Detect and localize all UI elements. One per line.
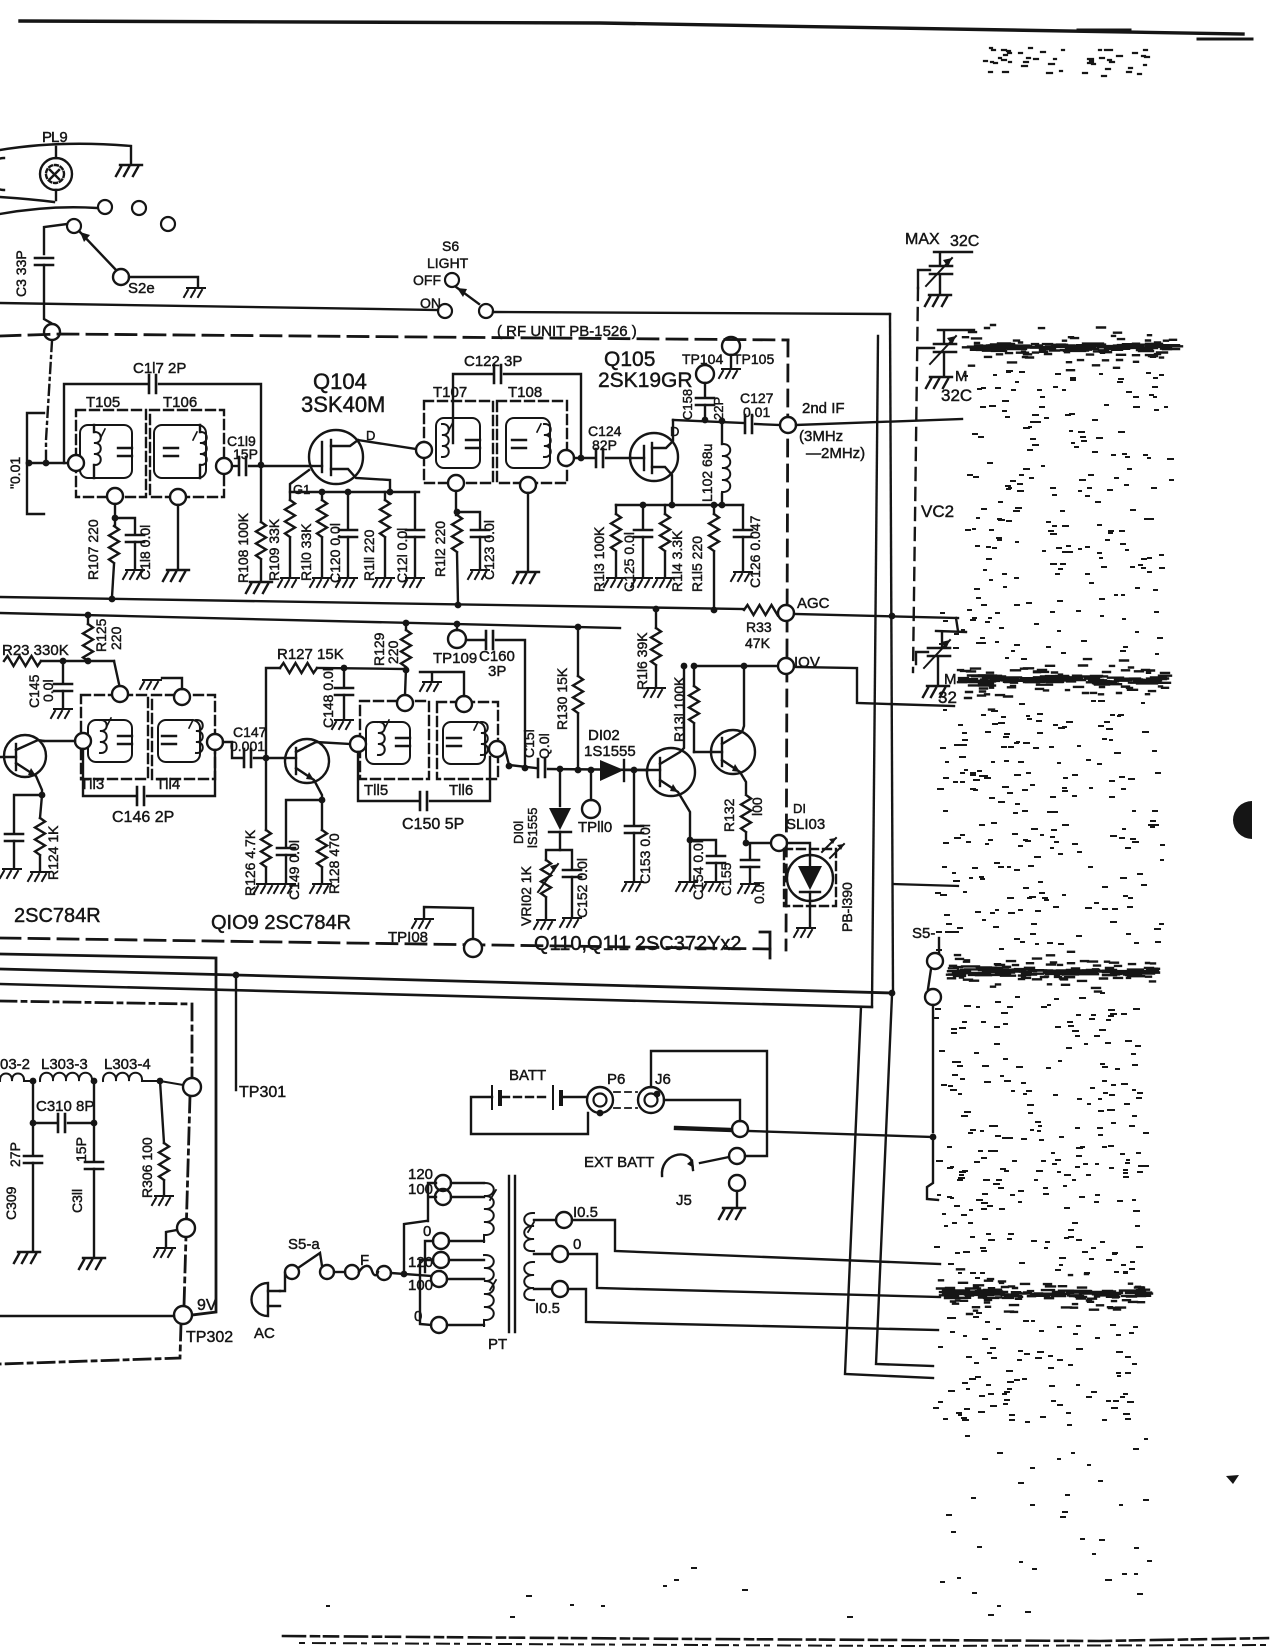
junction emitter	[39, 792, 46, 799]
wire source rail	[616, 504, 743, 506]
capacitor C310 8P	[33, 1081, 56, 1123]
node contact 2	[132, 201, 146, 215]
svg-text:C309: C309	[3, 1186, 19, 1220]
svg-text:—2MHz): —2MHz)	[806, 445, 865, 462]
transistor Q110	[646, 668, 695, 838]
wire AGC out	[794, 614, 958, 618]
transistor Q109 2SC784R	[285, 739, 350, 800]
trimmer capacitor VC (M 320)	[918, 330, 974, 375]
capacitor (left edge, on boundary)	[14, 795, 42, 832]
svg-text:Tll6: Tll6	[449, 782, 473, 799]
transistor Q111	[694, 668, 755, 793]
svg-text:220: 220	[108, 626, 124, 650]
wire 10.5 out	[572, 1220, 940, 1264]
svg-text:I0.5: I0.5	[573, 1204, 598, 1221]
svg-text:R1l6 39K: R1l6 39K	[634, 632, 650, 690]
wire S2e pivot to C3	[44, 224, 67, 254]
svg-text:T105: T105	[86, 394, 120, 411]
node T107 bottom	[448, 475, 464, 491]
ground (C118)	[123, 570, 144, 579]
svg-text:"0.01: "0.01	[7, 457, 23, 489]
resistor R306 100	[160, 1081, 164, 1143]
wire lower harness curve 1	[0, 197, 54, 202]
node T114 top	[174, 689, 190, 705]
wire dash-dot from border node	[46, 341, 52, 461]
svg-text:R128 470: R128 470	[326, 833, 342, 894]
svg-text:32: 32	[938, 688, 957, 707]
node on border with ground	[177, 1219, 195, 1237]
switch S6 OFF contact	[445, 273, 459, 287]
svg-text:J6: J6	[655, 1071, 671, 1088]
svg-text:R109 33K: R109 33K	[266, 518, 282, 581]
ground (VC lower)	[923, 686, 949, 697]
svg-text:R130 15K: R130 15K	[554, 667, 570, 730]
switch S6 right contact	[479, 304, 493, 318]
junction input	[26, 460, 33, 467]
svg-text:3P: 3P	[488, 663, 506, 680]
wire 10V rail	[694, 665, 778, 667]
capacitor C309 27P	[32, 1123, 34, 1154]
transformer T114	[152, 695, 215, 779]
svg-text:TP109: TP109	[433, 650, 477, 667]
svg-text:QIO9 2SC784R: QIO9 2SC784R	[211, 912, 351, 934]
capacitor C118 0.01	[115, 518, 135, 533]
wire v1 vertical with corner	[845, 1007, 933, 1378]
svg-text:C15l: C15l	[521, 729, 537, 758]
svg-text:100: 100	[408, 1277, 433, 1294]
svg-text:2nd IF: 2nd IF	[802, 400, 845, 417]
potentiometer VR102 1K	[541, 860, 551, 897]
wire VC link dashed	[918, 270, 930, 288]
capacitor C153 0.01	[631, 767, 638, 774]
svg-text:AGC: AGC	[797, 595, 830, 612]
resistor R107 220	[114, 504, 116, 526]
node T107 input	[416, 442, 432, 458]
svg-text:15P: 15P	[73, 1137, 89, 1162]
transformer T107	[424, 401, 493, 483]
inductor L102 68u	[721, 421, 723, 444]
capacitor C149 0.01	[286, 800, 322, 846]
capacitor C126 0.047	[742, 505, 744, 528]
svg-text:TPll0: TPll0	[578, 819, 612, 836]
svg-text:R13l 100K: R13l 100K	[671, 676, 687, 742]
wire v2 lower continuation	[876, 995, 933, 1366]
svg-text:DI0l: DI0l	[511, 821, 526, 844]
node T108 bottom	[520, 477, 536, 493]
svg-text:32C: 32C	[941, 386, 972, 405]
ground (T115/T116)	[420, 682, 441, 691]
node on RF box border	[44, 324, 60, 340]
svg-text:VC2: VC2	[921, 502, 954, 521]
wire battery return loop	[471, 1097, 588, 1134]
hook wire (battery plug)	[662, 1154, 693, 1176]
svg-text:T107: T107	[433, 384, 467, 401]
svg-text:PB-l390: PB-l390	[839, 882, 855, 932]
svg-text:22P: 22P	[711, 397, 726, 420]
resistor R110 33K	[321, 492, 323, 500]
wire fuse to taps	[391, 1273, 431, 1276]
svg-text:C153 0.0l: C153 0.0l	[637, 824, 653, 884]
trimmer capacitor VC (lower M 32)	[916, 631, 966, 684]
capacitor C122 3P bridge	[453, 374, 492, 443]
svg-text:l00: l00	[749, 797, 765, 816]
node T108 output	[558, 450, 574, 466]
node T116 output	[489, 741, 505, 757]
svg-text:C126 0.047: C126 0.047	[747, 515, 763, 588]
svg-text:C12l 0.0l: C12l 0.0l	[394, 528, 410, 583]
resistor R131 100K	[693, 666, 695, 686]
svg-text:0.001: 0.001	[230, 738, 265, 754]
svg-text:L303-3: L303-3	[41, 1056, 88, 1073]
svg-text:27P: 27P	[7, 1142, 23, 1167]
svg-text:Q105: Q105	[604, 348, 655, 371]
capacitor C311 15P	[93, 1123, 95, 1160]
svg-text:2SK19GR: 2SK19GR	[598, 369, 693, 392]
secondary tap 0	[534, 1253, 552, 1255]
transformer T116	[437, 702, 498, 779]
transformer T113	[81, 695, 148, 779]
svg-text:C3ll: C3ll	[69, 1189, 85, 1213]
wire rail B	[0, 613, 620, 628]
ground (T114 top)	[140, 680, 161, 689]
transformer PT secondary winding	[524, 1213, 534, 1251]
switch S2e lower contact	[113, 269, 129, 285]
wire 10V out	[794, 667, 954, 706]
wire tap bus	[404, 1221, 426, 1274]
wire plug to S5-a	[280, 1273, 285, 1291]
capacitor C151 0.01	[538, 759, 545, 777]
wire v4 vertical	[932, 1005, 934, 1132]
svg-text:47K: 47K	[745, 635, 771, 651]
wire AGC stub to trimmer	[956, 618, 958, 631]
AC plug	[252, 1283, 269, 1316]
capacitor C160 3P	[466, 639, 484, 641]
svg-text:0: 0	[423, 1223, 431, 1240]
svg-text:R1ll 220: R1ll 220	[361, 529, 377, 581]
wire stub into noise (y 884)	[893, 884, 958, 886]
wire bus line B	[0, 969, 892, 993]
svg-text:C155: C155	[718, 862, 734, 896]
node AGC	[778, 605, 794, 621]
svg-text:C158: C158	[680, 389, 695, 420]
diode D101 1S1555	[557, 766, 564, 773]
svg-text:2SC784R: 2SC784R	[14, 905, 101, 927]
RF unit dashed box top border	[0, 334, 788, 340]
secondary tap 10.5	[534, 1288, 552, 1290]
inductor L303-2 (partial)	[0, 1074, 33, 1082]
node T116 top	[456, 696, 472, 712]
svg-text:Tll5: Tll5	[364, 782, 388, 799]
resistor R132 100	[741, 795, 751, 832]
scan speckle column 3	[933, 993, 1148, 1140]
switch S6 ON contact	[438, 304, 452, 318]
secondary tap 10.5	[534, 1219, 556, 1221]
small arrow artifact	[1226, 1475, 1239, 1484]
svg-text:0: 0	[414, 1308, 422, 1325]
MOSFET Q104 3SK40M	[309, 430, 390, 492]
node contact 3	[161, 217, 175, 231]
svg-text:R127 15K: R127 15K	[277, 646, 344, 663]
wire T106 bottom to ground	[177, 505, 179, 568]
scan smudge band 1	[963, 325, 1182, 370]
node T115 input	[350, 736, 366, 752]
svg-text:C120 0.0l: C120 0.0l	[327, 523, 343, 583]
inner box corner (2SC372Y box)	[760, 932, 770, 958]
svg-text:Q.0l: Q.0l	[536, 733, 552, 759]
svg-text:T108: T108	[508, 384, 542, 401]
wire gate bias rail	[290, 470, 419, 492]
svg-text:I0.5: I0.5	[535, 1300, 560, 1317]
resistor R128 470	[321, 800, 323, 830]
scan noise speckle top-right	[984, 48, 1149, 76]
transformer PT primary tap 120	[433, 1252, 449, 1268]
capacitor C145 0.01	[62, 661, 64, 682]
wire 0 out	[568, 1254, 940, 1297]
svg-text:BATT: BATT	[509, 1067, 546, 1084]
svg-text:S5-a: S5-a	[288, 1236, 320, 1253]
svg-text:C1l8 0.0l: C1l8 0.0l	[137, 525, 153, 580]
scan smudge band 3	[947, 952, 1159, 992]
junction	[43, 460, 50, 467]
svg-text:R33: R33	[746, 619, 772, 635]
wire T114 top to ground	[162, 678, 182, 689]
svg-text:R23 330K: R23 330K	[2, 642, 69, 659]
capacitor C117 2P bridge	[64, 384, 148, 463]
test point TP110	[588, 767, 595, 774]
wire vertical v3 down right side	[872, 336, 878, 1005]
node end of bus line B	[925, 989, 941, 1005]
transformer PT primary tap 0	[433, 1233, 449, 1249]
capacitor C152 0.01	[560, 850, 572, 868]
test point TP301	[183, 1078, 201, 1096]
wire input node	[27, 462, 68, 464]
ground (VC M)	[926, 377, 952, 388]
svg-text:J5: J5	[676, 1192, 692, 1209]
svg-text:EXT BATT: EXT BATT	[584, 1154, 654, 1171]
resistor R109 33K	[289, 492, 291, 500]
capacitor C120 0.01	[347, 492, 349, 528]
lamp (partial, left edge)	[0, 158, 4, 190]
resistor R130 15K	[575, 624, 582, 631]
resistor R115 220	[713, 505, 715, 514]
resistor R129 220	[403, 620, 410, 627]
node 10V	[778, 658, 794, 674]
page top border overlap segment	[1078, 30, 1252, 39]
wire contact to right bus	[748, 1131, 933, 1137]
capacitor C155 0.01	[749, 844, 751, 858]
page top border line	[20, 21, 1243, 34]
black crescent (scan artifact)	[1233, 801, 1252, 839]
svg-text:R306 100: R306 100	[139, 1137, 155, 1198]
capacitor C125 0.01	[642, 505, 644, 528]
ground (S2e) small	[184, 288, 205, 297]
switch S2e blade	[79, 231, 117, 271]
wire R132 node to LED	[746, 842, 771, 844]
transformer T105	[76, 410, 146, 497]
svg-text:C149 0.0l: C149 0.0l	[286, 840, 302, 900]
capacitor C158 22P	[696, 398, 714, 405]
svg-text:VRI02 1K: VRI02 1K	[518, 865, 534, 926]
relay contact node	[732, 1121, 748, 1137]
junction emitter Q109	[319, 797, 326, 804]
RF unit dashed box bottom border	[0, 938, 770, 949]
wire Q108 collector to T113	[44, 740, 75, 742]
svg-text:R124 1K: R124 1K	[45, 825, 61, 880]
ground (T106)	[163, 570, 189, 581]
svg-text:MAX: MAX	[905, 231, 940, 248]
wire 2nd IF out	[796, 419, 962, 425]
wire Q104 drain to T107	[358, 440, 416, 449]
switch S2e pivot contact	[67, 219, 81, 233]
svg-text:( RF UNIT PB-1526 ): ( RF UNIT PB-1526 )	[497, 323, 637, 340]
jack J6	[638, 1087, 664, 1113]
wire J6 to relay contact	[664, 1100, 740, 1121]
wire PL9 to ground	[0, 144, 131, 163]
svg-text:S2e: S2e	[128, 280, 155, 297]
transformer T106	[150, 410, 224, 497]
svg-text:TP301: TP301	[239, 1084, 286, 1101]
scan speckle column 2	[936, 564, 1164, 950]
switch blade (EXT BATT)	[676, 1128, 731, 1130]
resistor R112 220	[455, 491, 457, 515]
transformer PT primary winding	[484, 1183, 494, 1242]
resistor R114 3.3K	[664, 505, 666, 514]
plug P6	[587, 1087, 613, 1113]
svg-text:0.0l: 0.0l	[751, 881, 767, 904]
capacitor C148 0.01	[343, 668, 345, 686]
svg-text:0.0l: 0.0l	[40, 679, 56, 702]
transformer PT primary tap 100	[431, 1271, 447, 1287]
SEC_POWER	[283, 231, 1272, 1646]
node T105 input	[68, 455, 84, 471]
svg-text:R1l0 33K: R1l0 33K	[298, 523, 314, 581]
transformer PT primary tap 0	[431, 1317, 447, 1333]
svg-text:G1: G1	[293, 482, 310, 497]
switch S6 blade	[456, 287, 479, 304]
svg-text:3SK40M: 3SK40M	[301, 392, 385, 417]
node T113 input	[75, 733, 91, 749]
node contact 1	[98, 200, 112, 214]
svg-text:R108 100K: R108 100K	[235, 512, 251, 583]
svg-text:C122 3P: C122 3P	[464, 353, 522, 370]
input coupling bracket (left edge)	[27, 413, 44, 514]
resistor R125 220	[85, 612, 92, 619]
node T105/T106 bottom	[107, 488, 123, 504]
wire 9V rail	[0, 1315, 174, 1317]
svg-text:C148 0.0l: C148 0.0l	[320, 668, 336, 728]
transformer PT primary tap 120	[435, 1175, 451, 1191]
svg-text:L102 68u: L102 68u	[699, 444, 715, 502]
resistor R126 4.7K	[265, 758, 267, 830]
svg-text:R1l3 100K: R1l3 100K	[591, 526, 607, 592]
wire S6 to right vertical	[493, 312, 890, 314]
bottom page border (noisy)	[283, 1636, 1272, 1641]
wire to T113 top	[114, 661, 119, 684]
svg-text:LIGHT: LIGHT	[427, 255, 469, 271]
svg-text:120: 120	[408, 1254, 433, 1271]
transformer T108	[497, 401, 567, 483]
AM unit dash-dot border	[0, 1001, 192, 1364]
transformer T115	[360, 701, 429, 779]
wire AGC rail	[0, 597, 744, 609]
svg-text:03-2: 03-2	[0, 1056, 30, 1073]
transformer PT core	[509, 1176, 515, 1332]
svg-text:PT: PT	[488, 1336, 507, 1353]
svg-text:1S1555: 1S1555	[584, 743, 636, 760]
wire S2e to ground	[129, 277, 198, 286]
svg-text:0: 0	[573, 1236, 581, 1253]
scan smudge band 4	[937, 1269, 1152, 1314]
wire 10.5 lower out	[568, 1289, 938, 1330]
svg-text:0.01: 0.01	[743, 404, 770, 420]
svg-text:R126 4.7K: R126 4.7K	[242, 829, 258, 896]
svg-text:C154 0.0l: C154 0.0l	[690, 840, 706, 900]
svg-text:C125 0.0l: C125 0.0l	[621, 532, 637, 592]
svg-text:L303-4: L303-4	[104, 1056, 151, 1073]
jack J5	[729, 1175, 745, 1191]
node T113 top	[112, 686, 128, 702]
inductor L303-3	[40, 1073, 94, 1081]
wire vertical v2 down right side	[890, 314, 893, 993]
ground (PL9)	[116, 165, 142, 176]
scan speckle bottom	[327, 1436, 1151, 1617]
capacitor C3 33P	[35, 258, 53, 265]
node T106 bottom	[170, 489, 186, 505]
svg-text:TPI08: TPI08	[388, 929, 428, 946]
svg-text:C310 8P: C310 8P	[36, 1098, 94, 1115]
ground (VC MAX)	[925, 295, 951, 306]
svg-text:R1l4 3.3K: R1l4 3.3K	[669, 530, 685, 592]
wire T116 out to C151	[505, 749, 536, 768]
svg-text:R107 220: R107 220	[85, 519, 101, 580]
capacitor C121 0.01	[414, 492, 416, 528]
svg-text:S6: S6	[442, 238, 459, 254]
svg-text:R1l2 220: R1l2 220	[432, 521, 448, 577]
svg-text:220: 220	[385, 640, 401, 664]
svg-text:AC: AC	[254, 1325, 275, 1342]
inductor L303-4	[103, 1073, 183, 1085]
wire drain node line	[673, 420, 744, 423]
resistor R33 47K	[744, 605, 781, 615]
svg-text:T106: T106	[163, 394, 197, 411]
svg-text:OFF: OFF	[413, 272, 441, 288]
capacitor C150 5P	[358, 752, 418, 801]
svg-text:32C: 32C	[950, 233, 979, 250]
svg-text:DI: DI	[793, 801, 806, 816]
svg-text:R125: R125	[93, 618, 109, 652]
wire T108 bottom to ground	[527, 493, 529, 570]
wire J6 top loop	[651, 1051, 767, 1156]
resistor R124 1K	[40, 795, 42, 818]
node T115 top	[397, 695, 413, 711]
svg-text:C146 2P: C146 2P	[112, 809, 174, 826]
svg-text:DI02: DI02	[588, 727, 620, 744]
test point TP109	[454, 621, 461, 628]
svg-text:C3 33P: C3 33P	[13, 250, 29, 297]
svg-text:Tll4: Tll4	[156, 776, 180, 793]
resistor R108 100K	[260, 466, 262, 522]
scan speckle column 1	[965, 371, 1173, 559]
capacitor C154 0.01	[687, 837, 694, 844]
scan speckle column 4	[934, 1146, 1148, 1425]
capacitor C123 0.01	[457, 512, 480, 528]
svg-text:9V: 9V	[197, 1297, 217, 1314]
resistor R116 39K	[653, 606, 660, 613]
transistor Q108 (left, 2SC784R)	[0, 735, 46, 795]
svg-text:C1l7 2P: C1l7 2P	[133, 360, 186, 377]
svg-text:Q104: Q104	[313, 369, 367, 394]
svg-text:TP105: TP105	[733, 351, 774, 367]
